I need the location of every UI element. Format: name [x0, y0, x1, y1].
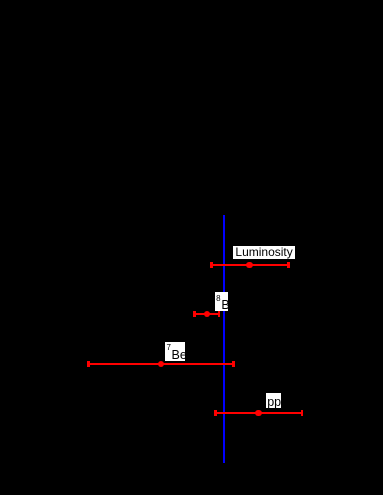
pp error bar	[215, 412, 302, 414]
Luminosity error bar	[211, 264, 288, 266]
8B label	[215, 292, 228, 311]
8B left cap	[193, 311, 195, 317]
Luminosity data point	[246, 262, 253, 269]
Luminosity right cap	[287, 262, 289, 268]
7Be error bar	[88, 363, 233, 365]
Luminosity left cap	[210, 262, 212, 268]
7Be right cap	[232, 361, 234, 367]
8B error bar	[195, 313, 220, 315]
8B data point	[204, 311, 211, 318]
7Be left cap	[87, 361, 89, 367]
7Be label	[165, 342, 186, 361]
pp right cap	[301, 410, 303, 416]
pp left cap	[214, 410, 216, 416]
7Be data point	[158, 361, 165, 368]
Luminosity label	[233, 246, 295, 260]
pp data point	[255, 410, 262, 417]
pp label	[266, 393, 281, 408]
8B right cap	[218, 311, 220, 317]
blue vertical model line	[223, 215, 226, 463]
